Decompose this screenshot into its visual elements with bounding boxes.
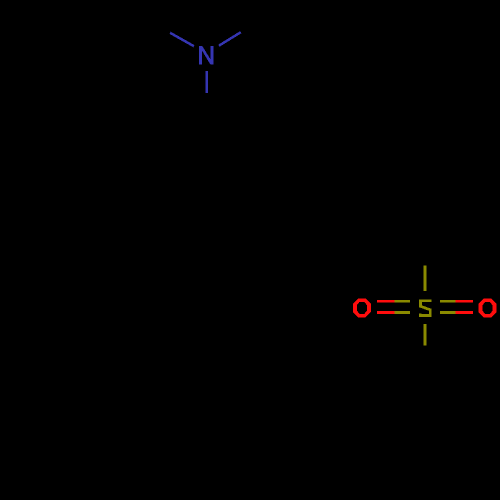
atom O right	[478, 299, 496, 318]
double bond S=O left (O half, red)	[377, 301, 395, 312]
atom N	[199, 46, 213, 65]
wire: carbon-carbon skeleton (black on black, invisible as in reference)	[144, 17, 425, 383]
double bond S=O right (O half, red)	[455, 301, 473, 312]
double bond S=O right (S half, olive)	[440, 301, 455, 312]
atom O left	[353, 299, 371, 318]
bond S-CH3 upward (S half, olive)	[424, 266, 427, 291]
bond N-CH3 upper-right (N half, blue)	[219, 32, 241, 46]
double bond S=O left (S half, olive)	[395, 301, 410, 312]
bond S-C downward (S half, olive)	[424, 324, 427, 345]
bond N-C downward (N half, blue)	[205, 71, 208, 93]
bond N-CH3 upper-left (N half, blue)	[170, 33, 194, 46]
atom S	[420, 301, 431, 316]
